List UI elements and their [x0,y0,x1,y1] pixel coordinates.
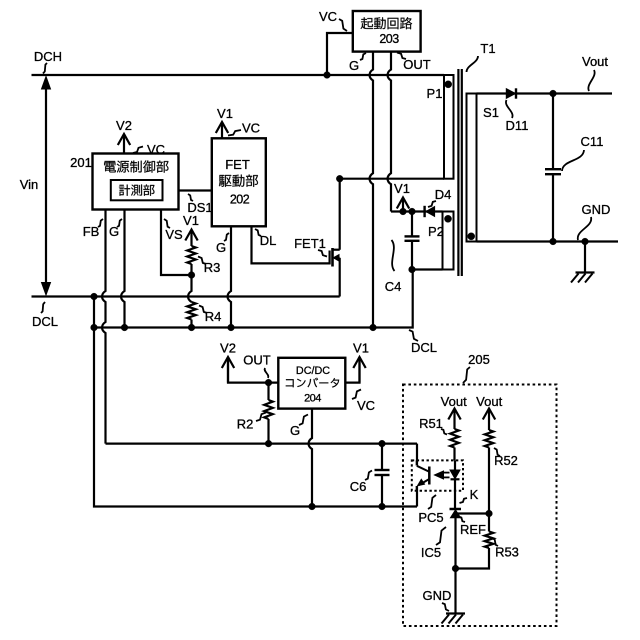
node Vout arrow (R52) [476,394,502,430]
node DCL label right [409,330,437,355]
wire G pin (204) [309,409,312,507]
node V1 arrow (R3) [183,213,199,246]
wire emitter riser [416,486,418,507]
junction R2 top [265,379,272,386]
junction gnd top [582,238,589,245]
svg-text:DCH: DCH [34,49,62,64]
wire FB bus [102,210,417,444]
node DCH label [34,49,62,74]
shunt regulator IC5 [450,509,462,614]
wire OUT pin (204) [228,357,278,383]
dc/dc converter block U204 [278,358,345,409]
junction DCL2 G203 [370,324,377,331]
junction IC5 anode [452,565,459,572]
svg-text:201: 201 [70,155,92,170]
junction REF node [486,510,493,517]
junction VS/R3/R4 [188,272,195,279]
svg-text:R2: R2 [237,417,254,432]
node V1 arrow (aux) [394,181,410,212]
wire OUT corner to P2 [391,210,443,212]
transformer T1 core [458,69,461,276]
svg-text:Vout: Vout [441,394,467,409]
junction DCL2 x94 [91,324,98,331]
winding S1 [467,94,477,242]
svg-text:K: K [470,487,479,502]
polarity dot P1 [445,81,452,88]
svg-text:V1: V1 [217,106,233,121]
winding P2 [443,212,454,270]
label R4 [199,306,221,325]
pin label G (201) [109,219,122,239]
label P1 [427,86,443,101]
winding P1 [444,75,454,179]
svg-text:P1: P1 [427,86,443,101]
junction DCL2 R4 [188,324,195,331]
polarity dot S1 [468,233,475,240]
svg-text:Vin: Vin [20,177,39,192]
junction C11 bottom [550,238,557,245]
node Vout arrow (R51) [441,394,467,429]
wire VC (203) to DCH [327,33,353,75]
label T1 [467,41,496,72]
svg-text:D4: D4 [435,187,452,202]
polarity dot P2 [444,215,451,222]
svg-text:IC5: IC5 [421,545,441,560]
node DCL label left [32,302,58,329]
wire C4 to P2 bottom [412,268,443,270]
svg-text:G: G [290,423,300,438]
svg-text:205: 205 [468,352,490,367]
startup circuit block U203 [353,11,421,52]
node V1 arrow (202) [216,106,233,138]
label PC5 [418,495,443,525]
label IC5 [421,527,446,560]
transistor FET1 [330,248,340,297]
resistor R51 [450,429,459,460]
opto LED [450,460,460,509]
label DS1 [187,194,212,215]
svg-text:V1: V1 [183,213,199,228]
label C6 [350,471,372,495]
wire G (203) down to DCL2 [370,52,373,328]
resistor R52 [485,430,494,514]
svg-text:V2: V2 [116,118,132,133]
label 201 [70,155,92,170]
dashed boundary 205 [403,385,557,627]
node Vin span arrow [20,77,51,296]
wire FB corner to opto [416,444,418,466]
label C11 [562,134,603,171]
svg-text:C4: C4 [385,279,402,294]
junction DCL2 G201 [121,324,128,331]
pin label FB (201) [83,219,103,239]
wire Vout line [477,92,613,94]
pin label VC (201) [133,142,165,157]
FET drive block U202 [212,138,266,226]
svg-text:C6: C6 [350,479,367,494]
junction C11 top [550,90,557,97]
wire DCL1 rail [32,295,340,297]
pin label G (202) [216,233,229,255]
junction G204 gnd [309,503,316,510]
resistor R3 [187,246,196,275]
svg-text:Vout: Vout [582,54,608,69]
wire REF [458,512,490,514]
svg-text:T1: T1 [480,41,495,56]
svg-text:R4: R4 [205,309,222,324]
wire left bus x94 [94,297,417,507]
pin label G (204) [290,415,308,439]
ground (secondary) [571,242,595,283]
junction DCL1 x94 [91,293,98,300]
pin label OUT (204) [243,353,271,379]
svg-text:VC: VC [147,142,165,157]
opto light arrows [435,471,450,479]
label REF [459,517,487,538]
junction R2 bottom [265,440,272,447]
ground (205) [442,614,466,624]
svg-text:OUT: OUT [403,57,431,72]
svg-text:R3: R3 [204,260,221,275]
label C4 [385,240,402,294]
label R3 [198,257,220,276]
junction C6 top [379,440,386,447]
diode D11 [506,88,516,98]
pin label VC (202) [228,121,260,136]
wire DCL2 rail [94,270,413,328]
junction C6 bottom [379,503,386,510]
label D11 [506,100,529,133]
label Vout (top) [582,54,608,91]
svg-text:FET1: FET1 [294,236,326,251]
capacitor C11 [545,94,561,242]
wire OUT (203) down [388,52,391,212]
power control block U201 [93,154,179,210]
node V1 arrow (204) [353,341,369,383]
label R51 [419,416,447,435]
junction drain corner [336,175,343,182]
wire R3-R4 hop DCL1 [188,275,191,302]
svg-text:D11: D11 [506,118,529,133]
svg-text:GND: GND [582,202,611,217]
svg-text:FB: FB [83,224,100,239]
svg-text:R53: R53 [495,545,519,560]
wire VS [161,210,192,276]
pin label OUT (203) [397,53,431,73]
resistor R4 [187,302,196,328]
svg-text:203: 203 [379,32,399,46]
junction C4 top [409,208,416,215]
label R53 [492,538,519,560]
wire G (201) to DCL2 [121,210,124,328]
label D4 [428,187,451,207]
label GND (top) [578,202,611,240]
label FET1 [294,236,327,257]
label R2 [237,413,266,432]
svg-text:OUT: OUT [243,353,271,368]
svg-text:DCL: DCL [411,340,437,355]
optocoupler PC5 dashed box [412,460,463,490]
svg-text:204: 204 [304,392,321,404]
wire DL to gate [252,227,330,264]
diode D4 [425,206,435,217]
wire G (202) to DCL2 [228,227,231,328]
svg-text:C11: C11 [581,134,604,149]
label GND (205) [423,588,452,611]
junction DCL2 G202 [228,324,235,331]
svg-text:202: 202 [230,193,250,207]
svg-text:P2: P2 [428,224,444,239]
svg-text:S1: S1 [483,105,499,120]
svg-text:PC5: PC5 [418,510,443,525]
svg-text:VC: VC [319,9,337,24]
svg-text:R51: R51 [419,416,443,431]
svg-text:DC/DC: DC/DC [296,365,330,377]
pin label G (203) [349,53,366,73]
label S1 [483,105,499,120]
junction C4 bottom [409,266,416,273]
wire V1 pin (204) [345,357,359,383]
wire drain P1 [340,179,444,250]
svg-text:G: G [216,240,226,255]
node V2 arrow (204) [220,341,236,383]
junction V1 node [400,208,407,215]
pin label VC (203) [319,9,347,31]
svg-text:Vout: Vout [476,394,502,409]
svg-text:GND: GND [423,588,452,603]
label P2 [428,224,444,239]
svg-text:VS: VS [165,227,183,242]
capacitor C4 [405,212,420,270]
svg-text:V2: V2 [220,341,236,356]
capacitor C6 [375,444,390,507]
svg-text:DL: DL [260,233,277,248]
label 205 [463,352,490,383]
opto phototransistor [417,460,430,490]
svg-text:FET: FET [225,157,250,172]
measurement sub-block [111,180,163,200]
wire DS1 [179,189,212,191]
svg-text:VC: VC [242,121,260,136]
label K [460,487,479,503]
resistor R53 [456,514,494,569]
svg-text:DCL: DCL [32,314,58,329]
wire GND line [477,240,619,242]
label R52 [494,448,518,468]
svg-text:REF: REF [460,522,486,537]
svg-text:V1: V1 [353,341,369,356]
pin label DL (202) [255,229,276,248]
wire DCH rail [32,74,445,76]
svg-text:V1: V1 [394,181,410,196]
node V2 arrow (201) [116,118,132,154]
junction DCH/VC [324,72,331,79]
svg-text:VC: VC [357,398,375,413]
pin label VC (204) [352,390,375,414]
pin label VS (201) [164,219,183,242]
svg-text:G: G [349,58,359,73]
resistor R2 [264,383,273,444]
